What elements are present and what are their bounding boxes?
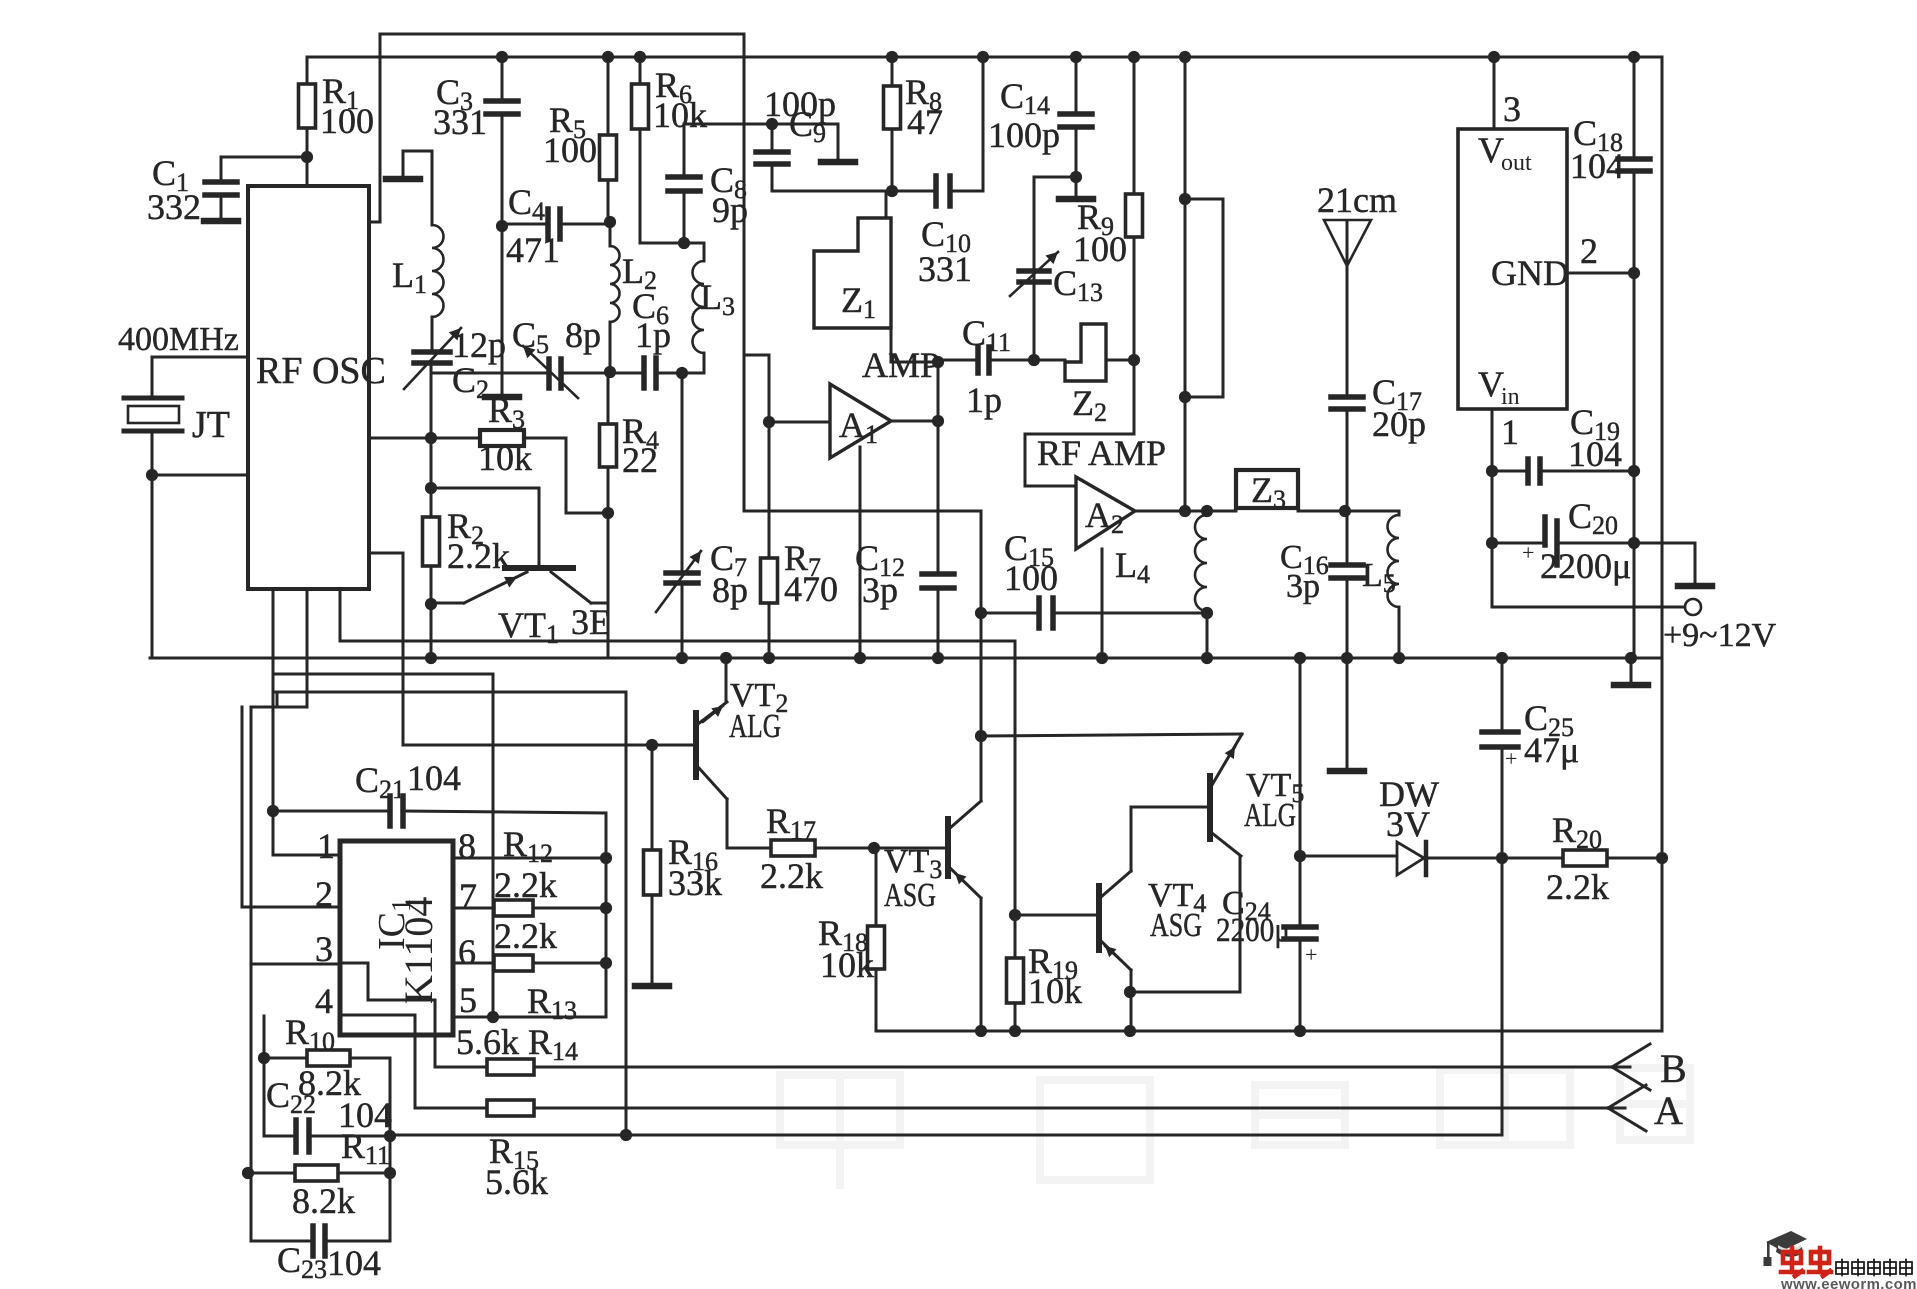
logo eeworm (1764, 1231, 1917, 1289)
capacitor C10 (892, 176, 983, 206)
junction bus C7 (676, 652, 688, 664)
junction bus DW (1294, 652, 1306, 664)
label R20 (1552, 810, 1602, 854)
junction L2/C5/R4 (604, 366, 616, 378)
label R3 value (478, 438, 532, 478)
label R12 (503, 824, 553, 868)
svg-text:10k: 10k (478, 438, 532, 478)
wire Vcc right drop (1661, 57, 1664, 607)
inductor L1 (392, 225, 444, 317)
junction VT2 base/R16 (646, 739, 658, 751)
label C12 value (862, 570, 898, 610)
svg-text:www.eeworm.com: www.eeworm.com (1780, 1276, 1917, 1289)
junction loop b (1179, 391, 1191, 403)
svg-text:5.6k: 5.6k (456, 1022, 519, 1062)
wire pin4 drop (263, 1016, 266, 1136)
label C24 (1222, 885, 1271, 926)
arrow B (1612, 1044, 1650, 1090)
junction R8 top (886, 51, 898, 63)
wire A1 gnd (859, 447, 862, 658)
junction VT4 base (1009, 909, 1021, 921)
label VT2 type (729, 708, 781, 745)
label VT1 (498, 605, 559, 649)
label R15 value (485, 1162, 548, 1202)
wire zener line (1299, 658, 1302, 856)
svg-text:8p: 8p (712, 570, 748, 610)
label R10 (285, 1012, 335, 1056)
wire C3 ground stub (501, 226, 504, 393)
svg-text:+: + (1522, 540, 1534, 565)
svg-text:10k: 10k (1028, 971, 1082, 1011)
junction rail VT4 (1124, 1025, 1136, 1037)
svg-text:100: 100 (320, 101, 374, 141)
wire R10 right (350, 1058, 390, 1241)
junction L4/C15 (1201, 607, 1213, 619)
svg-text:1p: 1p (966, 380, 1002, 420)
junction bus C16 (1341, 652, 1353, 664)
svg-text:ALG: ALG (1244, 797, 1296, 834)
svg-text:6: 6 (458, 932, 476, 972)
wire ctrl line (744, 511, 981, 613)
label C20 (1568, 496, 1618, 540)
junction C6/C7 (676, 367, 688, 379)
crystal JT (124, 398, 230, 446)
resistor R5 (600, 57, 617, 222)
junction R4/VT1 emitter (602, 507, 614, 519)
junction R17/R18 (868, 842, 880, 854)
resistor R8 (884, 57, 901, 191)
wire L4 to bus (1206, 613, 1209, 658)
svg-text:47: 47 (907, 102, 943, 142)
label R11 (341, 1126, 390, 1170)
label C15 (1004, 528, 1054, 572)
label C7 value (712, 570, 748, 610)
junction loop a (1179, 193, 1191, 205)
svg-text:2.2k: 2.2k (760, 856, 823, 896)
label DW value (1386, 804, 1430, 844)
wire C18 down (1633, 273, 1636, 658)
junction bus A1 (854, 652, 866, 664)
wire top loop right drop (743, 34, 746, 511)
junction bus L5 (1393, 652, 1405, 664)
svg-text:100p: 100p (988, 115, 1060, 155)
inductor L3 (693, 243, 736, 373)
junction bus VT2 (720, 652, 732, 664)
svg-text:10k: 10k (653, 95, 707, 135)
svg-text:RF OSC: RF OSC (256, 350, 386, 392)
label R1 (322, 71, 359, 115)
wire osc out R3 (368, 437, 371, 440)
wire Vcc bus (307, 56, 1662, 59)
wire A1 input tap (744, 355, 769, 422)
label C8 (710, 160, 747, 204)
svg-text:+: + (1505, 746, 1517, 771)
wire JT top (152, 357, 248, 396)
junction C18 top (1628, 51, 1640, 63)
label C1 (152, 153, 189, 197)
resistor R9 (1126, 57, 1143, 360)
op-amp A1 (830, 384, 891, 458)
junction VT4/VT5 emitters (1124, 986, 1136, 998)
label C23 (277, 1240, 327, 1284)
resistor R6 (632, 57, 649, 243)
wire R20 right up (1661, 607, 1664, 858)
svg-text:471: 471 (506, 230, 560, 270)
svg-text:+: + (1305, 942, 1317, 967)
wire C9 top link (684, 123, 838, 126)
svg-text:22: 22 (622, 440, 658, 480)
wire C2 down (430, 363, 433, 517)
junction DW/C25 (1496, 852, 1508, 864)
junction C18/pin2 (1628, 267, 1640, 279)
label VT4 type (1150, 907, 1202, 944)
label C11 (962, 313, 1011, 357)
svg-text:104: 104 (1568, 434, 1622, 474)
wire pin3 drop (251, 964, 313, 1241)
ground C16 (1330, 658, 1364, 771)
label C1 value (147, 187, 201, 227)
label C6 value (635, 315, 671, 355)
svg-text:400MHz: 400MHz (118, 321, 239, 358)
svg-text:3E: 3E (571, 602, 611, 642)
label C9 value 100p (764, 84, 836, 124)
capacitor C21 (273, 796, 403, 826)
svg-text:8: 8 (458, 826, 476, 866)
svg-text:K1104: K1104 (396, 897, 441, 1004)
junction rail VT3 (975, 1025, 987, 1037)
wire reg pin1 (1491, 409, 1494, 607)
resistor R1 (299, 84, 316, 157)
antenna 21cm (1317, 180, 1397, 266)
wire Z1 bottom (891, 328, 938, 362)
label C13 (1053, 263, 1103, 307)
resistor R20 (1502, 850, 1662, 866)
wire pin c (339, 589, 342, 641)
junction C19 right (1628, 465, 1640, 477)
label R19 (1028, 941, 1078, 985)
ground C14 (1059, 177, 1093, 199)
transistor VT4 (1099, 871, 1131, 970)
junction R11 left (242, 1167, 254, 1179)
wire pin a (273, 589, 339, 855)
junction VT1 emitter left (425, 598, 437, 610)
wire JT to box (152, 474, 248, 477)
svg-text:+9~12V: +9~12V (1663, 617, 1777, 654)
wire VT5 collector (981, 734, 1242, 736)
junction reg pin3 (1488, 51, 1500, 63)
svg-text:1: 1 (1501, 412, 1519, 452)
label R8 (905, 72, 942, 116)
svg-text:20p: 20p (1372, 404, 1426, 444)
junction bus L4 (1201, 652, 1213, 664)
svg-text:331: 331 (433, 102, 487, 142)
ground C3 column (485, 393, 519, 397)
label C8 value (712, 190, 748, 230)
label R2 value (447, 536, 510, 576)
wire to L3 bottom (682, 372, 704, 375)
junction bus C25 (1496, 652, 1508, 664)
label C9 (789, 104, 826, 148)
resistor R12 (453, 900, 606, 916)
label VT4 (1148, 877, 1206, 918)
junction net B2 (384, 1167, 396, 1179)
label R20 value (1546, 867, 1609, 907)
regulator U2 (1458, 129, 1569, 410)
capacitor C16 (1331, 511, 1363, 658)
svg-text:9p: 9p (712, 190, 748, 230)
junction pin8 col (600, 852, 612, 864)
junction DW/C24 (1294, 850, 1306, 862)
capacitor C22 (264, 1120, 390, 1152)
svg-text:in: in (1501, 384, 1520, 410)
svg-text:3V: 3V (1386, 804, 1430, 844)
junction A2 out a (1179, 505, 1191, 517)
svg-text:104: 104 (407, 758, 461, 798)
wire IC internal a (340, 963, 487, 1067)
junction A1 out (932, 415, 944, 427)
label R14 value (456, 1022, 519, 1062)
IC IC1 K1104 (340, 841, 453, 1035)
svg-text:out: out (1501, 150, 1532, 176)
svg-text:3: 3 (1503, 89, 1521, 129)
label R6 (655, 65, 692, 109)
wire pin5 feed (273, 674, 493, 1017)
wire supply feed (273, 692, 626, 1135)
label C20 value (1540, 546, 1631, 586)
wire ctrl down (980, 613, 983, 736)
label C16 value (1286, 568, 1320, 605)
label C17 value (1372, 404, 1426, 444)
label pin2 (1580, 231, 1598, 271)
junction R20 right (1656, 852, 1668, 864)
label pin 5 (459, 980, 477, 1020)
junction A2 out b (1201, 505, 1213, 517)
junction pin5 feed (487, 1011, 499, 1023)
wire main bus (150, 657, 1662, 660)
wire top loop (380, 33, 744, 36)
capacitor C8 (668, 124, 700, 243)
junction bus A2 (1096, 652, 1108, 664)
svg-text:2.2k: 2.2k (494, 916, 557, 956)
label pin 8 (458, 826, 476, 866)
label C2 (452, 360, 489, 404)
label R14 (528, 1022, 578, 1066)
label C23 value (327, 1243, 381, 1283)
resistor R7 (761, 422, 778, 658)
wire keyed rail (876, 858, 1662, 1031)
wire DW anode (1300, 855, 1397, 858)
label B (1660, 1046, 1687, 1091)
wire reg pin3 (1493, 57, 1496, 129)
label R4 (622, 411, 659, 455)
label DW (1379, 774, 1439, 814)
label R10 value (298, 1063, 361, 1103)
resistor R10 (264, 1050, 350, 1066)
svg-text:100: 100 (543, 130, 597, 170)
capacitor C12 (922, 421, 954, 658)
capacitor C9 (756, 124, 788, 191)
wire A2 input (1025, 360, 1134, 486)
label R1 value (320, 101, 374, 141)
svg-text:1p: 1p (635, 315, 671, 355)
junction C4/L2 (604, 216, 616, 228)
junction R5 top (602, 51, 614, 63)
junction C3/C4 (496, 220, 508, 232)
impedance Z1 (814, 218, 891, 328)
ground bus right (1614, 658, 1648, 685)
wire col 606 (605, 858, 608, 963)
wire pin8 (453, 857, 606, 860)
svg-text:47μ: 47μ (1524, 730, 1579, 770)
resistor R2 (423, 517, 440, 604)
wire C21 right (403, 811, 606, 858)
wire VT3 base (874, 847, 944, 850)
label C10 value (918, 249, 972, 289)
wire R1 top (306, 57, 309, 84)
resistor R16 (644, 850, 661, 984)
RF OSC module U-RFOSC (248, 186, 386, 589)
svg-text:2: 2 (315, 874, 333, 914)
label pin 3 (315, 929, 333, 969)
terminal +9-12V (1492, 599, 1777, 654)
wire line A (534, 1107, 1625, 1110)
zener diode DW (1397, 842, 1502, 875)
variable capacitor C7 (656, 373, 701, 658)
junction C10 top (977, 51, 989, 63)
transistor VT5 (1210, 734, 1242, 856)
svg-text:3p: 3p (862, 570, 898, 610)
label pin 6 (458, 932, 476, 972)
variable capacitor C2 (404, 328, 461, 389)
junction R13 col (600, 957, 612, 969)
junction C8 bottom (678, 237, 690, 249)
resistor R19 (1007, 915, 1024, 1031)
capacitor C23 (313, 1226, 390, 1256)
label C25 value (1524, 730, 1579, 770)
junction C9 top (766, 118, 778, 130)
wire emitter link (1130, 856, 1240, 992)
junction net B1 (384, 1130, 396, 1142)
junction supply/net (620, 1129, 632, 1141)
wire VT3 emitter (980, 898, 983, 1031)
label R17 (766, 801, 816, 845)
svg-text:8.2k: 8.2k (292, 1181, 355, 1221)
label pin 1 (317, 826, 335, 866)
resistor R15 (487, 1100, 534, 1116)
svg-text:104: 104 (1570, 146, 1624, 186)
label C19 value (1568, 434, 1622, 474)
label R3 (488, 390, 525, 434)
capacitor C3 (486, 57, 518, 226)
junction rail C24 (1294, 1025, 1306, 1037)
impedance Z2 (1065, 324, 1107, 427)
junction C21 left (267, 805, 279, 817)
label C21 value (407, 758, 461, 798)
wire A1 out (891, 420, 938, 423)
svg-text:3p: 3p (1286, 568, 1320, 605)
label C5 (512, 315, 549, 359)
svg-text:B: B (1660, 1046, 1687, 1091)
wire VT1 emitter to bus (430, 604, 433, 658)
wire pin b (251, 589, 339, 964)
capacitor C17 (1331, 266, 1363, 511)
svg-text:2200μ: 2200μ (1216, 912, 1290, 949)
capacitor C14 (1060, 57, 1092, 177)
svg-text:4: 4 (315, 981, 333, 1021)
junction antenna line (1339, 505, 1351, 517)
wire C13 riser (1034, 177, 1076, 360)
label C5 value (565, 315, 601, 355)
label C25 (1524, 698, 1574, 742)
label VT5 type (1244, 797, 1296, 834)
junction C3 top (496, 51, 508, 63)
svg-text:3: 3 (315, 929, 333, 969)
junction pin1/C19 (1486, 465, 1498, 477)
resistor R4 (600, 372, 617, 513)
svg-text:2.2k: 2.2k (447, 536, 510, 576)
wire VT2 emitter (727, 799, 771, 848)
svg-text:RF AMP: RF AMP (1037, 433, 1166, 473)
wire L1 to C2 (431, 317, 434, 352)
label A (1654, 1088, 1683, 1133)
label R5 (549, 100, 586, 144)
wire R1 to box (306, 157, 309, 186)
label VT1 type (571, 602, 611, 642)
svg-text:7: 7 (459, 876, 477, 916)
junction R1/C1 (301, 151, 313, 163)
junction VT5 line (975, 730, 987, 742)
label C7 (710, 538, 747, 582)
capacitor C20 (1492, 517, 1695, 565)
junction C14 bottom (1070, 171, 1082, 183)
label VT3 (884, 843, 942, 884)
label C11 value (966, 380, 1002, 420)
svg-text:JT: JT (192, 404, 230, 446)
label VT3 type (884, 877, 936, 914)
junction bus C12 (932, 652, 944, 664)
junction shield top (1179, 51, 1191, 63)
junction rail R19 (1009, 1025, 1021, 1037)
label R9 value (1073, 229, 1127, 269)
label R5 value (543, 130, 597, 170)
label C12 (855, 538, 905, 582)
label C14 (1000, 76, 1050, 120)
wire R6 bottom (640, 242, 704, 245)
wire IC internal b (340, 1015, 487, 1108)
label pin1 (1501, 412, 1519, 452)
junction R9/Z2 (1128, 354, 1140, 366)
label R12 value (494, 865, 557, 905)
label C22 value (338, 1095, 392, 1135)
op-amp A2 (1076, 477, 1135, 549)
label R16 (668, 832, 718, 876)
label R19 value (1028, 971, 1082, 1011)
wire A2 out (1135, 510, 1236, 513)
capacitor C24 (1284, 856, 1317, 1031)
svg-text:ASG: ASG (884, 877, 936, 914)
label R4 value (622, 440, 658, 480)
junction pin1/C20 (1486, 537, 1498, 549)
junction C20/C18 (1628, 537, 1640, 549)
label C18 value (1570, 146, 1624, 186)
svg-text:331: 331 (918, 249, 972, 289)
ground R16 (635, 983, 669, 990)
wire A2 gnd (1101, 549, 1104, 658)
label R18 value (820, 945, 874, 985)
wire C10 up (982, 57, 985, 191)
label C16 (1280, 539, 1329, 580)
svg-text:21cm: 21cm (1317, 180, 1397, 220)
